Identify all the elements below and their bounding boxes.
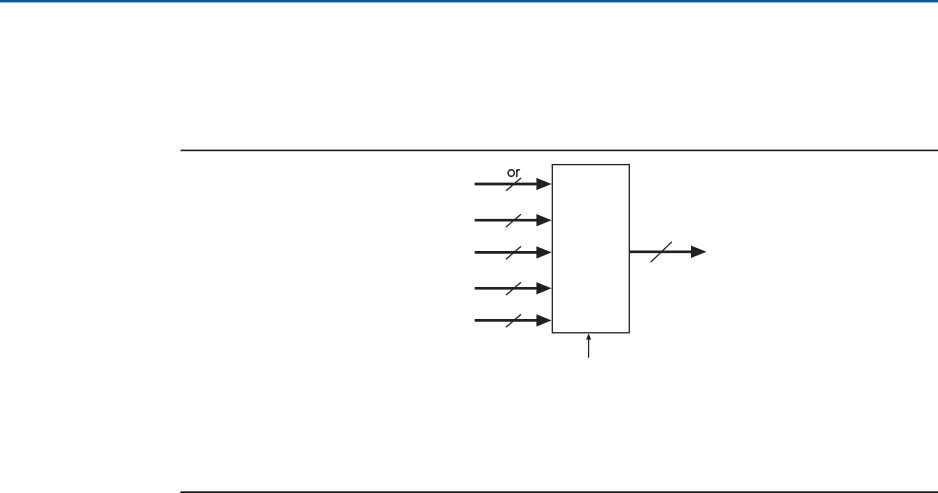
bus-width slash on input 1	[506, 178, 521, 191]
top blue banner bar	[0, 0, 938, 3]
bus-width slash on input 3	[506, 246, 521, 259]
label "or"	[508, 169, 520, 177]
bus-width slash on input 2	[506, 214, 521, 227]
footer rule	[180, 491, 938, 493]
input bus arrow 2 (wire)	[475, 214, 552, 226]
input bus arrow 3 (wire)	[475, 246, 552, 258]
bus-width slash on input 4	[506, 282, 521, 295]
bus-width slash on output	[651, 242, 672, 262]
output bus arrow (wire)	[630, 246, 707, 258]
input bus arrow 4 (wire)	[475, 282, 552, 294]
header rule	[181, 150, 938, 152]
bus-width slash on input 5	[506, 314, 521, 327]
multiplexer block U1	[552, 165, 629, 333]
input bus arrow 1 (wire)	[475, 178, 552, 190]
select input arrow (wire)	[586, 333, 591, 357]
input bus arrow 5 (wire)	[475, 314, 552, 326]
